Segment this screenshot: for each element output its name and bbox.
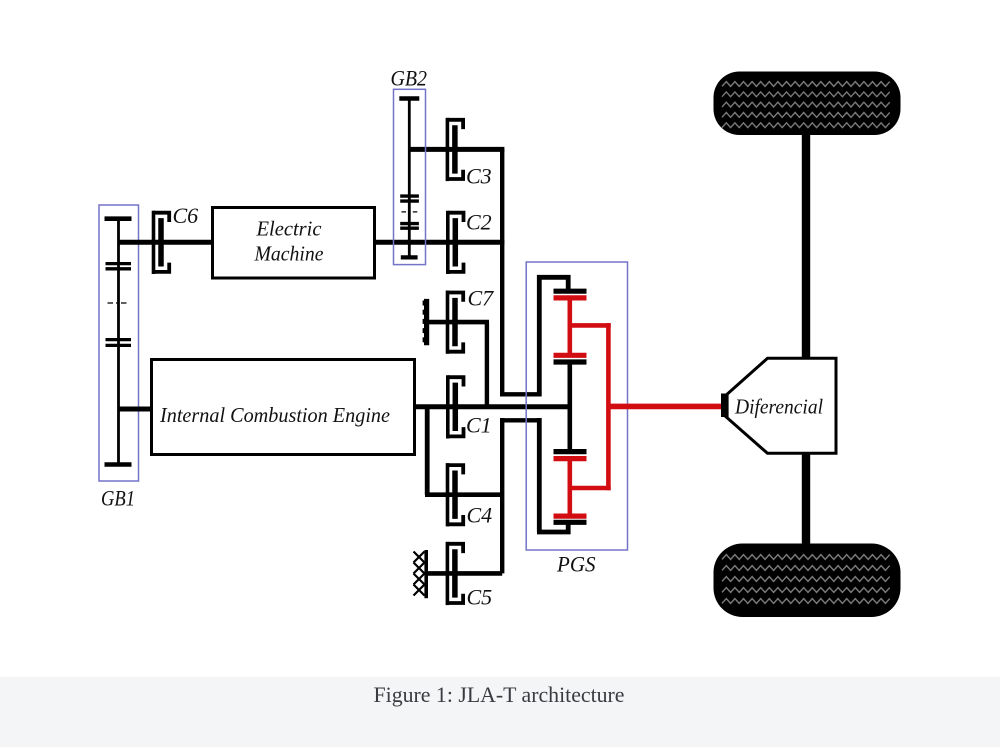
svg-text:Internal Combustion Engine: Internal Combustion Engine [159, 403, 390, 427]
svg-text:Diferencial: Diferencial [734, 395, 823, 419]
svg-text:C5: C5 [467, 585, 493, 610]
svg-text:C6: C6 [173, 203, 199, 228]
svg-text:C1: C1 [466, 413, 492, 438]
svg-text:C2: C2 [466, 210, 492, 235]
svg-text:GB1: GB1 [101, 486, 135, 511]
svg-text:PGS: PGS [556, 552, 595, 577]
svg-text:C3: C3 [466, 164, 492, 189]
svg-text:Electric: Electric [256, 217, 322, 241]
svg-text:Figure 1: JLA-T architecture: Figure 1: JLA-T architecture [374, 682, 625, 707]
svg-text:GB2: GB2 [391, 66, 428, 91]
svg-text:C7: C7 [468, 286, 495, 311]
svg-text:C4: C4 [467, 503, 493, 528]
svg-text:Machine: Machine [254, 242, 324, 266]
